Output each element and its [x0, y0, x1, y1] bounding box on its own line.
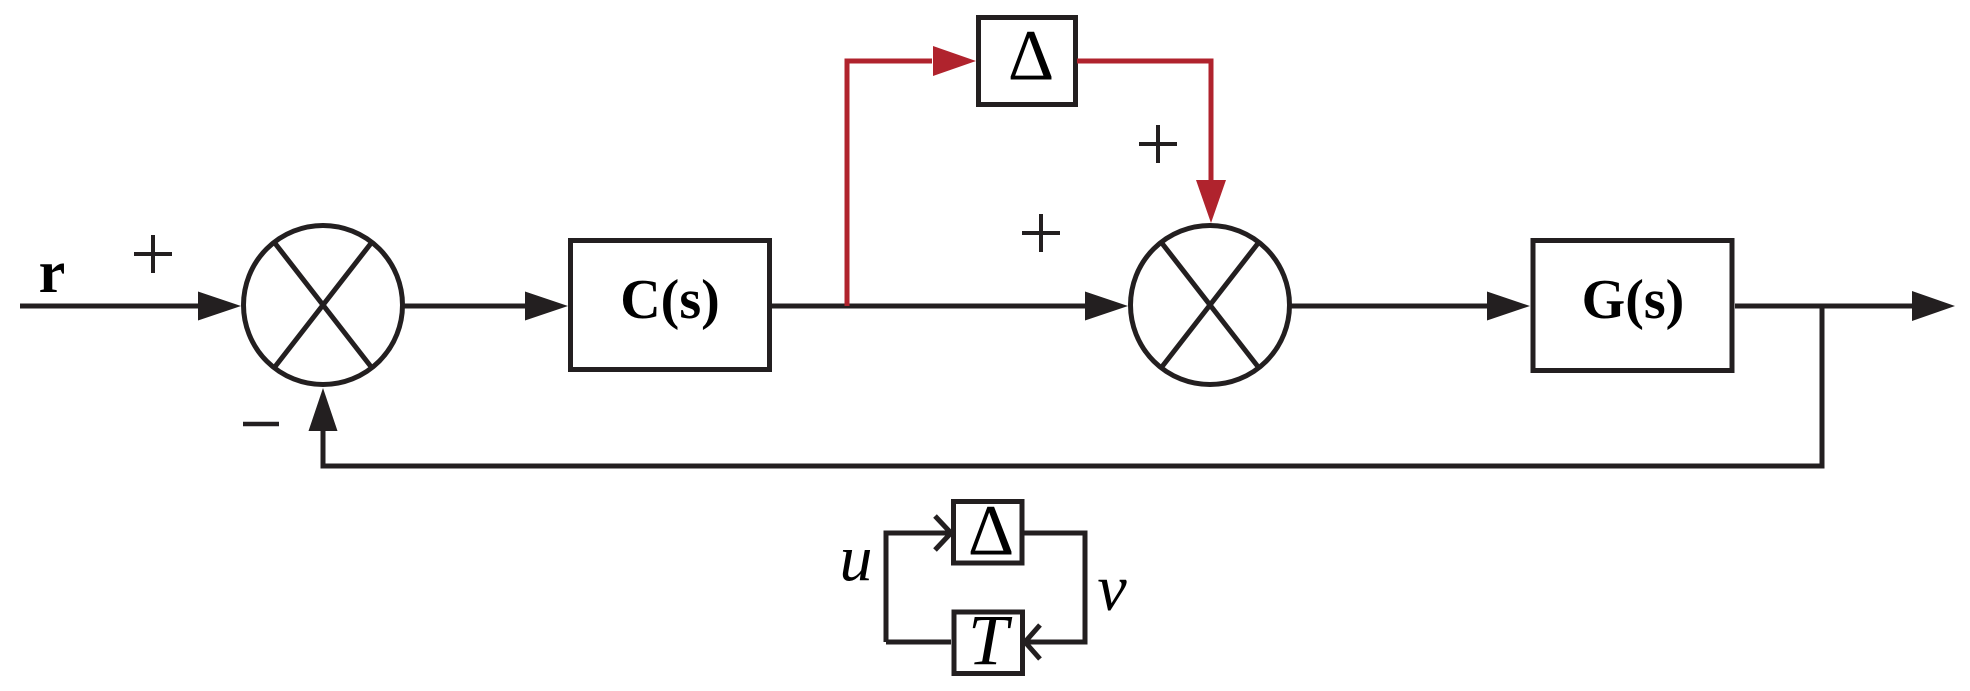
- wire Delta to v (lower diagram): [1024, 533, 1085, 642]
- block C(s): [571, 241, 770, 370]
- plus sign for main path into S2: [1022, 214, 1060, 252]
- block T (lower diagram): [954, 612, 1023, 674]
- summing junction S2: [1131, 226, 1290, 385]
- svg-text:T: T: [968, 600, 1013, 680]
- wire u loop left and top into Delta (lower diagram): [886, 533, 950, 642]
- plus sign for Delta path into S2: [1139, 125, 1177, 163]
- svg-text:Δ: Δ: [1008, 16, 1054, 96]
- block Delta (uncertainty, top): [979, 18, 1076, 105]
- red arrowhead into Delta: [933, 46, 976, 76]
- open arrowhead into lower Delta: [935, 516, 951, 550]
- feedback wire from output node down and left: [323, 306, 1822, 466]
- S2 cross X: [1161, 242, 1259, 368]
- red wire Delta to S2: [1077, 61, 1211, 180]
- svg-text:G(s): G(s): [1582, 269, 1685, 331]
- output wire: [1735, 304, 1913, 309]
- wire r to S1: [20, 304, 200, 309]
- svg-text:r: r: [39, 239, 66, 305]
- svg-text:C(s): C(s): [620, 269, 720, 331]
- arrowhead into G(s): [1487, 292, 1530, 321]
- wire S1 to C(s): [404, 304, 527, 309]
- output arrowhead: [1912, 291, 1955, 321]
- block Delta (lower diagram): [954, 502, 1023, 564]
- minus sign at S1 feedback input: [243, 422, 279, 427]
- svg-text:u: u: [840, 522, 873, 595]
- svg-text:Δ: Δ: [968, 491, 1014, 571]
- wire C(s) to S2: [772, 304, 1086, 309]
- red arrowhead down into S2: [1196, 180, 1226, 223]
- arrowhead up into S1: [309, 388, 338, 431]
- node tap (red branch point) and red wire up to Delta: [847, 61, 932, 306]
- summing junction S1: [244, 226, 403, 385]
- open arrowhead into block T: [1025, 625, 1040, 659]
- svg-text:v: v: [1097, 552, 1127, 625]
- plus sign at summing junction S1 input: [134, 235, 172, 273]
- block G(s): [1533, 241, 1732, 371]
- arrowhead into C(s): [525, 292, 568, 321]
- arrowhead into S1: [198, 292, 241, 321]
- S1 cross X: [274, 242, 372, 368]
- wire S2 to G(s): [1291, 304, 1488, 309]
- wire T back to u loop (lower diagram): [886, 640, 951, 645]
- arrowhead into S2: [1085, 292, 1128, 321]
